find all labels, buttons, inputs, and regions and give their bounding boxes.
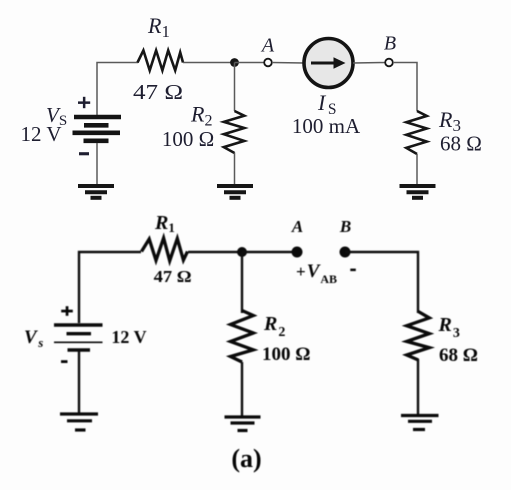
ground R3 [401,416,439,430]
wire R3 to ground [416,154,418,184]
wire B to R3 [393,63,417,112]
svg-text:B: B [384,33,396,55]
node B [385,59,393,67]
current source IS [304,39,353,88]
wire R2 to ground [241,362,243,416]
resistor R2 [231,311,254,363]
svg-text:68 Ω: 68 Ω [439,345,478,366]
wire junction to R2 [234,63,236,112]
wire battery to ground [96,143,98,184]
label plus [78,97,90,108]
node A [264,59,272,67]
ground R3 [400,186,436,198]
svg-text:100 Ω: 100 Ω [262,344,310,365]
resistor R1 [138,50,184,70]
wire junction to node A [235,62,265,64]
wire R1 to junction [183,62,235,64]
svg-text:A: A [260,35,275,57]
junction dot [237,247,247,257]
label minus of VAB [350,269,356,272]
resistor R3 [407,312,430,361]
svg-text:47 Ω: 47 Ω [154,267,192,286]
wire junction to node A [242,251,294,253]
ground R2 [217,186,253,198]
svg-text:B: B [339,217,351,236]
svg-text:100 mA: 100 mA [292,114,361,138]
wire current source to node B [353,62,385,65]
ground VS [78,186,114,198]
wire A to current source [272,62,304,65]
ground VS [60,414,98,430]
node B dot [340,247,351,258]
battery VS plates [73,117,122,141]
wire R3 to ground [417,359,419,414]
wire R2 to ground [234,153,236,185]
wire B to R3 [345,252,418,313]
label minus [61,360,68,363]
wire battery top to R1 [97,63,138,116]
wire junction to R2 [241,252,243,313]
label minus [79,152,89,155]
wire battery top to R1 [79,252,141,323]
node A dot [292,247,303,258]
battery VS plates [54,325,103,350]
resistor R1 [142,238,188,261]
svg-text:12 V: 12 V [111,327,146,347]
svg-text:12 V: 12 V [20,122,61,146]
svg-text:47 Ω: 47 Ω [133,80,183,104]
svg-text:100 Ω: 100 Ω [162,127,214,151]
wire R1 to junction [188,251,242,253]
wire battery to ground [78,350,80,413]
resistor R2 [224,111,245,153]
svg-text:68 Ω: 68 Ω [440,132,482,156]
svg-text:A: A [291,217,303,236]
resistor R3 [406,111,427,154]
svg-text:(a): (a) [231,444,261,473]
ground R2 [225,417,261,431]
arrow in current source [311,62,336,65]
junction dot [230,58,239,67]
label plus [61,306,73,316]
